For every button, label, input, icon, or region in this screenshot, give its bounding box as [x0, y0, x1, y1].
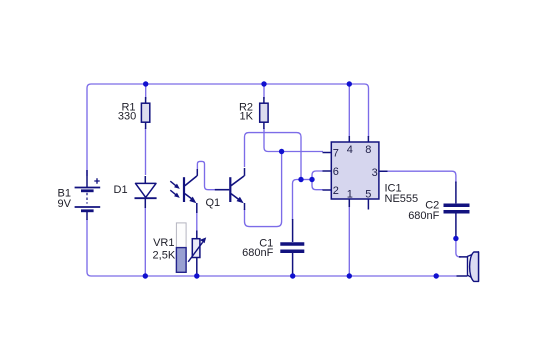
svg-text:2,5K: 2,5K	[153, 250, 176, 262]
junction node rail-right	[434, 273, 439, 278]
junction node pin4-top	[347, 81, 352, 86]
IC U1 NE555	[323, 136, 388, 210]
svg-text:Q1: Q1	[206, 197, 221, 209]
wire	[87, 219, 457, 276]
capacitor C2	[444, 182, 470, 239]
junction node VR1-bottom	[194, 273, 199, 278]
junction node D1-bottom	[143, 273, 148, 278]
svg-text:8: 8	[365, 144, 371, 156]
svg-text:6: 6	[333, 166, 339, 178]
capacitor C1	[280, 219, 304, 277]
svg-text:1: 1	[347, 189, 353, 201]
wire	[145, 128, 147, 175]
junction node pin1-bottom	[347, 273, 352, 278]
wire	[145, 84, 147, 99]
light arrow 2	[170, 190, 180, 198]
junction node R1-top	[143, 81, 148, 86]
junction node threshold-B	[309, 177, 314, 182]
svg-text:4: 4	[347, 144, 353, 156]
svg-text:3: 3	[372, 167, 378, 179]
wire	[312, 171, 323, 190]
svg-text:VR1: VR1	[153, 237, 174, 249]
wire	[293, 180, 302, 221]
svg-text:680nF: 680nF	[242, 247, 273, 259]
resistor R2	[260, 97, 268, 129]
wire	[144, 207, 146, 276]
wire	[264, 128, 323, 152]
diode D1	[135, 176, 157, 208]
wire	[196, 211, 198, 232]
light arrow 1	[170, 181, 180, 189]
wire	[87, 84, 369, 176]
junction node C1-bottom	[290, 273, 295, 278]
wire	[245, 152, 282, 227]
svg-text:D1: D1	[114, 184, 128, 196]
transistor Q1	[215, 168, 245, 210]
wire	[387, 171, 456, 183]
wire	[263, 84, 265, 99]
wire	[301, 179, 312, 181]
wire	[456, 239, 461, 257]
wire	[348, 206, 350, 276]
svg-text:680nF: 680nF	[408, 210, 439, 222]
svg-text:NE555: NE555	[385, 193, 419, 205]
battery B1	[75, 170, 101, 220]
wire	[348, 84, 350, 137]
junction node pin7	[279, 149, 284, 154]
junction node R2-top	[261, 81, 266, 86]
wire	[197, 161, 216, 189]
resistor R1	[141, 97, 149, 129]
junction node threshold-A	[298, 177, 303, 182]
svg-text:2: 2	[333, 185, 339, 197]
svg-text:5: 5	[365, 189, 371, 201]
svg-text:1K: 1K	[240, 110, 254, 122]
variable resistor VR1 slider	[176, 223, 186, 272]
variable resistor VR1	[188, 231, 206, 277]
junction node C2-bottom	[453, 236, 458, 241]
svg-text:330: 330	[118, 110, 136, 122]
loudspeaker LS1	[457, 252, 479, 282]
phototransistor	[184, 169, 197, 213]
svg-text:7: 7	[333, 148, 339, 160]
svg-text:9V: 9V	[58, 198, 72, 210]
wire	[245, 133, 302, 180]
